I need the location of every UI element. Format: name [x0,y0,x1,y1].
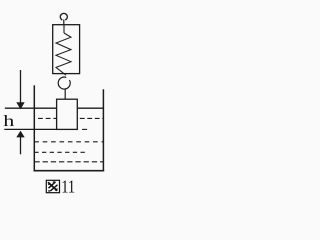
dashed water line y152 (stops early) [34,151,85,153]
down arrow (upper measure arrow) [20,70,22,103]
water surface line (raised level) with left tick [5,107,57,109]
dashed water line y118 left [38,117,57,119]
hanger line to block [64,89,66,100]
ring at top of spring scale (open at bottom) [60,13,67,20]
dashed water line y162 [34,161,103,163]
container bottom [34,170,105,172]
up arrow (lower measure arrow) [20,137,22,155]
svg-text:11: 11 [61,176,75,197]
dashed water line y118 right [80,117,104,119]
container left wall [33,85,35,171]
original level line with left tick (solid up to block right edge) [4,128,77,130]
svg-text:h: h [3,113,14,130]
caption: hand-drawn CJK glyph (figure) [46,180,59,192]
block [57,99,78,129]
spring top stub [63,25,65,33]
stub ring to case [63,20,65,25]
hook below case [58,77,70,89]
spring zigzag [56,33,71,75]
container right wall [102,89,104,171]
dashed water line y142 [34,141,103,143]
single dash right of block [82,128,87,130]
spring scale case [53,25,80,74]
